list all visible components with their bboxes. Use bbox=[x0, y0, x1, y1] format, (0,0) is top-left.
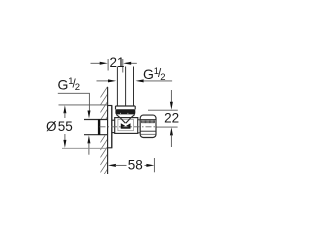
inlet pipe in wall bbox=[84, 119, 108, 135]
bonnet top bbox=[116, 106, 136, 110]
valve body bbox=[115, 118, 138, 134]
outlet stop ring bbox=[138, 120, 140, 133]
svg-text:22: 22 bbox=[164, 111, 179, 126]
axis centerline bbox=[100, 126, 157, 128]
svg-text:58: 58 bbox=[128, 158, 143, 173]
wall pipe white clearing bbox=[84, 119, 109, 135]
riser pipe G1/2 bbox=[117, 67, 133, 106]
nut knurling bbox=[141, 120, 155, 123]
dimension 58 bbox=[108, 158, 154, 173]
inlet pipe lower arrow bbox=[87, 135, 90, 154]
svg-text:Ø55: Ø55 bbox=[46, 119, 73, 134]
dimension Ø55 bbox=[46, 105, 107, 148]
knurled handle band bbox=[115, 109, 135, 114]
wall hatching bbox=[100, 87, 107, 188]
union nut bbox=[140, 115, 156, 137]
svg-text:21: 21 bbox=[109, 55, 124, 70]
funnel slants bbox=[116, 114, 135, 123]
left G1/2 leader bbox=[58, 93, 91, 118]
flange escutcheon Ø55 bbox=[108, 106, 112, 148]
dimension 22 bottom arrow bbox=[170, 127, 173, 147]
neck between flange and body bbox=[112, 120, 115, 132]
dimension 22 top arrow bbox=[148, 90, 178, 110]
dimension 21 bbox=[91, 55, 137, 72]
riser pipe G1/2 pointer arrows bbox=[97, 79, 173, 82]
wall face line bbox=[107, 87, 109, 174]
valve cone dark insert bbox=[121, 123, 131, 128]
